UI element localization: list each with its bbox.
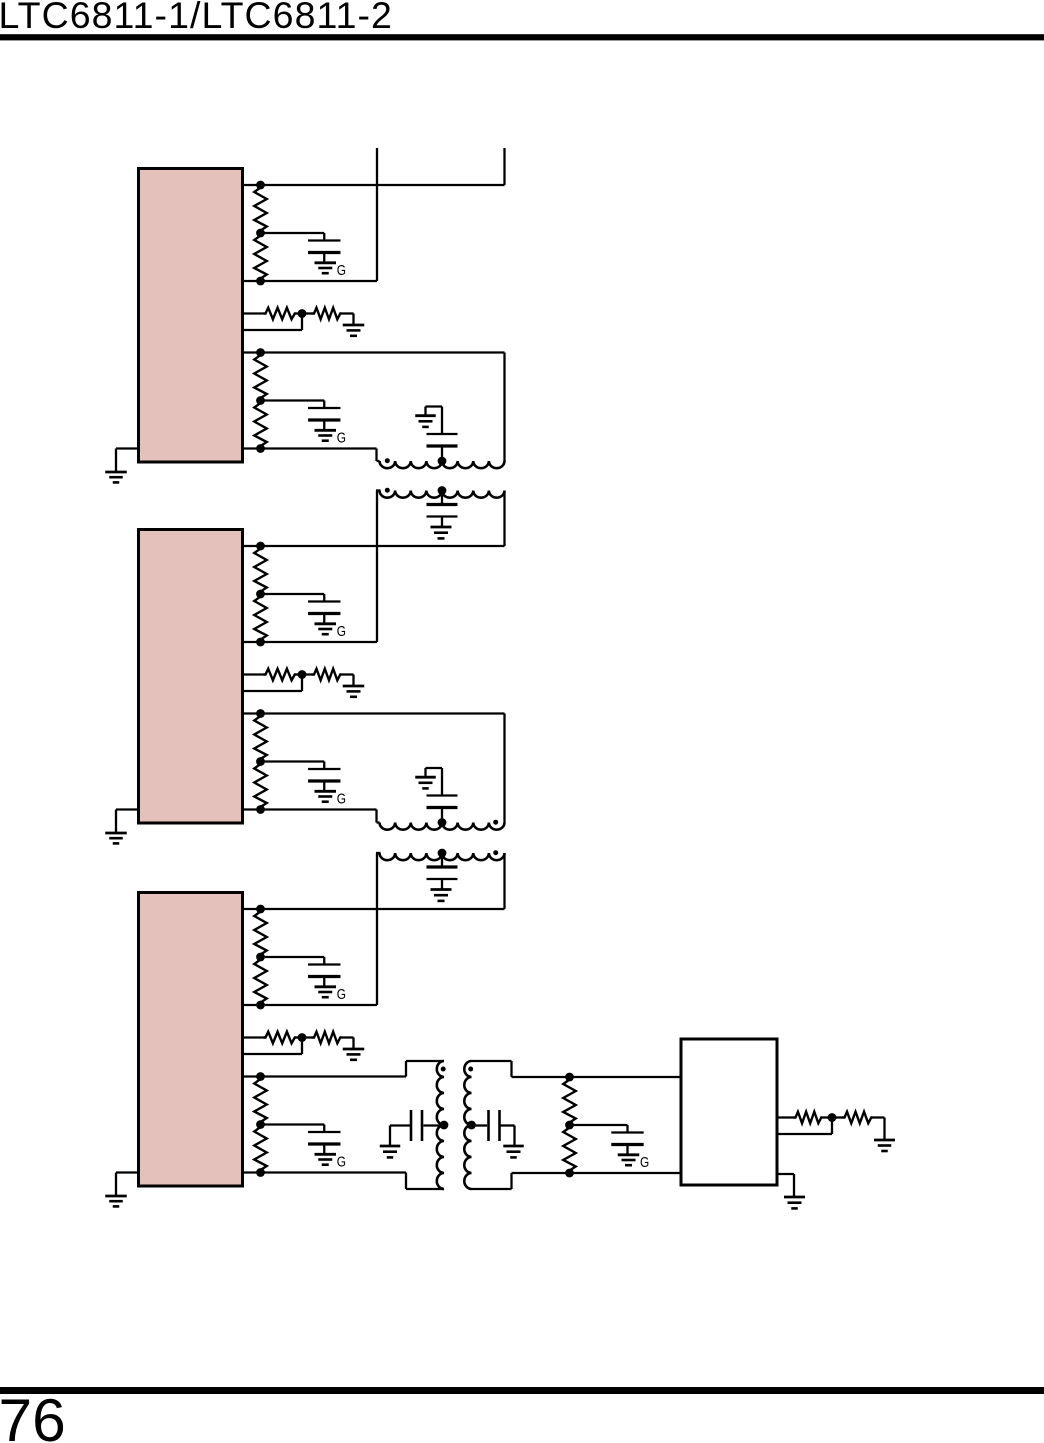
wire R44 to ground U4 xyxy=(873,1116,885,1118)
ground (chassis) for C T2 secondary xyxy=(431,888,452,891)
resistor R16 (IPB divider bottom) xyxy=(254,401,267,449)
wire IPA pin U3 xyxy=(242,908,505,910)
resistor R21 (IPA divider top) xyxy=(254,546,267,594)
inductor winding T2 secondary xyxy=(380,853,505,860)
polarity dot of T1 secondary xyxy=(385,488,390,493)
resistor R15 (IPB divider top) xyxy=(254,353,267,401)
node IPB U1 xyxy=(256,348,265,357)
ground (chassis) divider U2 xyxy=(343,685,365,688)
wire pin1 divider U3 xyxy=(242,1036,263,1038)
node U4 divider mid xyxy=(565,1121,574,1130)
node divider mid U4 xyxy=(828,1113,837,1122)
wire node to R24 U2 xyxy=(302,673,312,675)
svg-text:LTC6811-1/LTC6811-2: LTC6811-1/LTC6811-2 xyxy=(0,0,393,36)
resistor R35 (IPB divider top) xyxy=(254,1077,267,1125)
resistor R22 (IPA divider bottom) xyxy=(254,594,267,642)
resistor R31 (IPA divider top) xyxy=(254,909,267,957)
resistor R11 (IPA divider top) xyxy=(254,185,267,233)
node IMB U1 xyxy=(256,444,265,453)
resistor R44 xyxy=(842,1112,873,1124)
footer rule xyxy=(0,1387,1044,1394)
polarity dot of T2 primary xyxy=(493,820,498,825)
wire vertical IMA link U1 xyxy=(376,148,378,281)
wire pin1 divider U1 xyxy=(242,312,263,314)
wire R24 to ground U2 xyxy=(342,673,354,675)
wire R33 to node U3 xyxy=(296,1036,302,1038)
resistor R26 (IPB divider bottom) xyxy=(254,762,267,810)
resistor R42 (U4 input divider bottom) xyxy=(563,1125,576,1173)
wire node to R14 U1 xyxy=(302,312,312,314)
ground (chassis) V- U1 xyxy=(105,471,127,474)
node divider A mid U2 xyxy=(256,590,265,599)
wire pin1 divider U2 xyxy=(242,673,263,675)
polarity dot of T3 primary xyxy=(441,1067,446,1072)
polarity dot of T3 secondary xyxy=(468,1067,473,1072)
wire pin2 divider U2 xyxy=(242,690,302,692)
ground (chassis) divider U4 xyxy=(874,1139,895,1142)
svg-text:76: 76 xyxy=(0,1386,66,1443)
node divider mid U3 xyxy=(298,1033,307,1042)
wire IPB pin U2 xyxy=(242,712,505,714)
wire IMB pin U2 xyxy=(242,808,377,810)
node divider B mid U3 xyxy=(256,1120,265,1129)
resistor R43 xyxy=(793,1112,823,1124)
IC block U2 (LTC6811) xyxy=(139,530,243,824)
wire R34 to ground U3 xyxy=(342,1036,354,1038)
node IPB U3 xyxy=(256,1072,265,1081)
resistor R32 (IPA divider bottom) xyxy=(254,957,267,1005)
wire IMB pin U1 xyxy=(242,447,377,449)
wire V- pin U1 xyxy=(116,447,139,449)
wire IPB pin U1 xyxy=(242,351,505,353)
node IPA U2 xyxy=(256,542,265,551)
wire R43 to node U4 xyxy=(823,1116,833,1118)
ground (chassis) V- U2 xyxy=(105,832,127,835)
resistor R13 xyxy=(263,308,296,320)
wire IMB step-down U3 xyxy=(405,1173,407,1190)
wire vertical IMA link U3 xyxy=(376,853,378,1005)
wire T3 secondary bottom to U4 xyxy=(472,1188,512,1190)
polarity dot of T2 secondary xyxy=(493,850,498,855)
wire pin2 divider U3 xyxy=(242,1053,302,1055)
ground G (chassis) for C2B xyxy=(315,790,337,793)
ground (chassis) for C T3 primary xyxy=(380,1145,401,1148)
node divider B mid U2 xyxy=(256,757,265,766)
node IMA U2 xyxy=(256,638,265,647)
IC block U3 (LTC6811) xyxy=(139,893,243,1187)
svg-text:G: G xyxy=(337,429,346,445)
wire vertical IPB link U2 xyxy=(503,714,505,823)
wire R13 to node U1 xyxy=(296,312,302,314)
node IM U4 xyxy=(565,1169,574,1178)
center-tap junction node of T1 secondary xyxy=(438,486,447,495)
wire vertical IMA link U2 xyxy=(376,491,378,643)
wire pin2 divider U4 xyxy=(777,1133,832,1135)
wire IMB pin U3 xyxy=(242,1171,406,1173)
node IMA U1 xyxy=(256,277,265,286)
resistor R24 xyxy=(312,669,342,681)
svg-text:G: G xyxy=(337,986,346,1002)
ground (chassis) for C T2 primary xyxy=(415,776,436,779)
wire vertical IPA link U2 xyxy=(503,491,505,547)
ground G (chassis) for C1A xyxy=(315,261,337,264)
wire R23 to node U2 xyxy=(296,673,302,675)
wire IPA pin U2 xyxy=(242,545,505,547)
svg-text:G: G xyxy=(337,1153,346,1169)
ground G (chassis) for C4 xyxy=(618,1153,640,1156)
center-tap junction node of T2 primary xyxy=(438,818,447,827)
node IPA U1 xyxy=(256,181,265,190)
svg-text:G: G xyxy=(337,790,346,806)
node IPA U3 xyxy=(256,905,265,914)
capacitor C3A to chassis ground G xyxy=(261,956,325,958)
capacitor C T2 secondary (center-tap to ground) xyxy=(441,853,443,867)
wire pin2 divider U1 xyxy=(242,329,302,331)
capacitor C1B to chassis ground G xyxy=(261,399,325,401)
wire vertical IPA link U3 xyxy=(503,853,505,909)
node divider A mid U3 xyxy=(256,953,265,962)
center-tap junction node of T2 secondary xyxy=(438,849,447,858)
node IP U4 xyxy=(565,1073,574,1082)
svg-text:G: G xyxy=(640,1154,649,1170)
ground (chassis) for C T1 primary xyxy=(415,414,436,417)
capacitor C T1 primary (center-tap to ground) xyxy=(441,446,443,461)
wire IPA pin U1 xyxy=(242,184,505,186)
resistor R23 xyxy=(263,669,296,681)
node IMB U2 xyxy=(256,805,265,814)
ground G (chassis) for C2A xyxy=(315,622,337,625)
resistor R12 (IPA divider bottom) xyxy=(254,233,267,281)
wire V- pin U3 xyxy=(116,1171,139,1173)
wire GND pin U4 xyxy=(777,1173,794,1175)
header rule xyxy=(0,34,1044,40)
resistor R41 (U4 input divider top) xyxy=(563,1077,576,1125)
ground G (chassis) for C1B xyxy=(315,429,337,432)
resistor R25 (IPB divider top) xyxy=(254,714,267,762)
center-tap junction node of T1 primary xyxy=(438,457,447,466)
capacitor C T2 primary (center-tap to ground) xyxy=(441,808,443,823)
wire IMA pin U1 xyxy=(242,280,377,282)
inductor winding T3 secondary xyxy=(464,1061,471,1189)
resistor R36 (IPB divider bottom) xyxy=(254,1125,267,1173)
center-tap junction node of T3 secondary xyxy=(467,1121,476,1130)
IC block U4 (isoSPI master) xyxy=(681,1039,777,1185)
inductor winding T1 primary xyxy=(380,461,505,468)
ground (chassis) divider U3 xyxy=(343,1048,365,1051)
node IMB U3 xyxy=(256,1168,265,1177)
svg-text:G: G xyxy=(337,262,346,278)
ground (chassis) divider U1 xyxy=(343,324,365,327)
node IPB U2 xyxy=(256,709,265,718)
ground (chassis) U4 xyxy=(784,1196,805,1199)
capacitor C2A to chassis ground G xyxy=(261,593,325,595)
ground G (chassis) for C3B xyxy=(315,1153,337,1156)
wire IMA pin U2 xyxy=(242,641,377,643)
inductor winding T2 primary xyxy=(380,823,505,830)
capacitor C3B to chassis ground G xyxy=(261,1123,325,1125)
wire vertical IPB link U1 xyxy=(503,353,505,462)
resistor R34 xyxy=(312,1032,342,1044)
node divider B mid U1 xyxy=(256,396,265,405)
wire T3 secondary top to U4 xyxy=(472,1060,512,1062)
inductor winding T3 primary xyxy=(437,1061,444,1189)
ground G (chassis) for C3A xyxy=(315,985,337,988)
node divider A mid U1 xyxy=(256,229,265,238)
ground (chassis) for C T3 secondary xyxy=(503,1145,524,1148)
IC block U1 (LTC6811) xyxy=(139,169,243,463)
node divider mid U2 xyxy=(298,670,307,679)
wire R14 to ground U1 xyxy=(342,312,354,314)
wire V- pin U2 xyxy=(116,808,139,810)
wire vertical IPA link U1 xyxy=(503,148,505,185)
capacitor C4 to chassis ground G xyxy=(570,1124,628,1126)
node divider mid U1 xyxy=(298,309,307,318)
wire IPB step-up U3 xyxy=(405,1061,407,1077)
resistor R33 xyxy=(263,1032,296,1044)
capacitor C T3 secondary (center-tap to ground) xyxy=(472,1124,488,1126)
ground (chassis) for C T1 secondary xyxy=(431,526,452,529)
capacitor C T1 secondary (center-tap to ground) xyxy=(441,491,443,505)
wire pin1 divider U4 xyxy=(777,1116,793,1118)
capacitor C T3 primary (center-tap to ground) xyxy=(424,1124,445,1126)
polarity dot of T1 primary xyxy=(385,458,390,463)
wire node to R44 U4 xyxy=(832,1116,842,1118)
wire IMA pin U3 xyxy=(242,1004,377,1006)
capacitor C2B to chassis ground G xyxy=(261,760,325,762)
node IMA U3 xyxy=(256,1001,265,1010)
capacitor C1A to chassis ground G xyxy=(261,232,325,234)
wire IPB pin U3 xyxy=(242,1075,406,1077)
svg-text:G: G xyxy=(337,623,346,639)
resistor R14 xyxy=(312,308,342,320)
center-tap junction node of T3 primary xyxy=(440,1121,449,1130)
ground (chassis) V- U3 xyxy=(105,1195,127,1198)
inductor winding T1 secondary xyxy=(380,491,505,498)
wire node to R34 U3 xyxy=(302,1036,312,1038)
